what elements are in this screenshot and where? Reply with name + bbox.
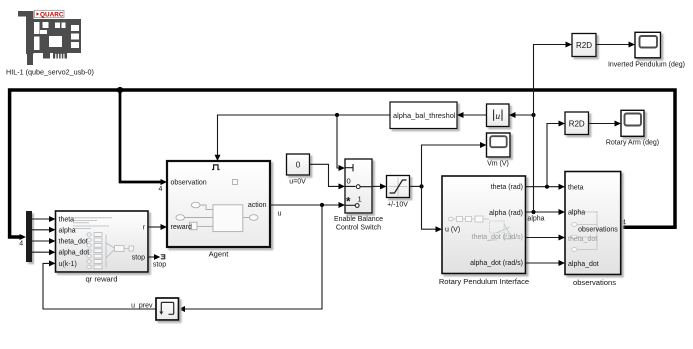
svg-text:action: action <box>248 202 267 209</box>
arrow into Agent reward <box>161 224 168 230</box>
block constant u=0V <box>287 154 310 175</box>
wire constant to switch middle input <box>310 164 340 186</box>
svg-text:4: 4 <box>19 241 23 248</box>
arrow into observations alpha_dot <box>559 260 566 266</box>
svg-text:u(k-1): u(k-1) <box>59 261 77 268</box>
svg-text:QUARC: QUARC <box>40 11 64 18</box>
Rotary Pendulum Interface preview <box>449 216 512 240</box>
svg-text:1: 1 <box>358 195 362 204</box>
arrow into demux <box>20 234 27 240</box>
wire qr reward stop <box>148 256 155 258</box>
svg-text:qr reward: qr reward <box>85 275 117 284</box>
block HIL-1 card icon <box>18 11 81 65</box>
svg-text:R2D: R2D <box>569 119 585 128</box>
wire to Vm scope <box>422 145 482 186</box>
svg-text:+/-10V: +/-10V <box>387 202 408 209</box>
svg-text:alpha_dot (rad/s): alpha_dot (rad/s) <box>470 260 523 267</box>
svg-text:reward: reward <box>171 224 193 231</box>
arrow into inverted pendulum scope <box>629 42 636 48</box>
block abs |u| <box>487 104 510 127</box>
block scope Inverted Pendulum (deg) <box>635 32 661 58</box>
arrow into Agent observation <box>161 179 168 185</box>
arrow into observations alpha <box>559 209 566 215</box>
arrow into alpha_bal_threshold (right side, flipped) <box>457 112 464 118</box>
junction sat out <box>419 184 423 188</box>
arrow into Vm scope <box>480 142 487 148</box>
arrow into |u| (right side, flipped) <box>509 112 516 118</box>
svg-text:alpha: alpha <box>527 216 544 223</box>
svg-text:R2D: R2D <box>576 41 592 50</box>
arrows into qr reward <box>49 216 56 266</box>
svg-text:Rotary Arm (deg): Rotary Arm (deg) <box>606 140 659 147</box>
svg-text:Vm (V): Vm (V) <box>487 161 509 168</box>
block R2D inverted pendulum <box>572 34 596 57</box>
block u_prev memory <box>156 298 179 320</box>
arrow into u (V) <box>436 226 443 232</box>
wire qr reward r to Agent <box>148 226 162 228</box>
svg-text:alpha_bal_threshol: alpha_bal_threshol <box>393 111 456 120</box>
svg-text:*: * <box>346 197 351 209</box>
wire alpha to observations <box>526 211 560 213</box>
svg-text:theta_dot: theta_dot <box>59 239 88 246</box>
junction action wire <box>320 203 324 207</box>
wire trigger branch to switch top input <box>337 115 340 168</box>
svg-text:0: 0 <box>296 160 301 169</box>
svg-text:alpha_dot: alpha_dot <box>59 250 90 257</box>
wire demux out 4 <box>32 251 50 253</box>
wire demux out 1 <box>32 218 50 220</box>
wire demux out 2 <box>32 229 50 231</box>
svg-text:4: 4 <box>159 186 163 193</box>
wire u_prev out to u(k-1) <box>43 263 156 309</box>
demux Demux <box>26 211 32 262</box>
junction alpha at |u| <box>531 113 535 117</box>
svg-text:Control Switch: Control Switch <box>336 225 381 232</box>
svg-text:alpha (rad): alpha (rad) <box>489 210 523 217</box>
svg-text:Agent: Agent <box>209 250 230 259</box>
svg-text:theta_dot (rad/s): theta_dot (rad/s) <box>472 234 523 241</box>
wire thick branch to Agent observation <box>120 90 161 182</box>
block scope Rotary Arm (deg) <box>621 110 644 136</box>
QUARC logo <box>35 10 65 18</box>
svg-text:Rotary Pendulum Interface: Rotary Pendulum Interface <box>439 277 529 286</box>
trigger symbol <box>212 165 220 170</box>
svg-text:0: 0 <box>347 177 351 186</box>
block R2D rotary arm <box>565 112 589 135</box>
wire R2D rotary to scope <box>589 123 616 125</box>
arrow into switch top input <box>339 165 346 171</box>
svg-text:observations: observations <box>573 278 616 287</box>
wire theta to observations <box>526 186 560 188</box>
svg-text:alpha: alpha <box>568 210 585 217</box>
wire trigger net from alpha_bal_threshold <box>218 115 391 155</box>
wire action branch down to u_prev <box>184 205 322 309</box>
wire to u (V) input <box>422 186 437 229</box>
arrow into saturation <box>380 183 387 189</box>
block stop (Stop Simulation, tiny) <box>161 254 165 259</box>
wire demux out 3 <box>32 240 50 242</box>
block qr reward <box>56 211 149 272</box>
svg-text:theta_dot: theta_dot <box>568 236 597 243</box>
svg-text:alpha_dot: alpha_dot <box>568 261 599 268</box>
wire alpha_dot to observations <box>526 262 560 264</box>
arrow into R2D rotary <box>559 121 566 127</box>
svg-text:stop: stop <box>153 262 166 269</box>
wire alpha junction to |u| <box>516 114 534 116</box>
block alpha_bal_threshold <box>390 102 457 129</box>
block Agent <box>167 161 270 247</box>
wire saturation out with junction <box>410 185 422 187</box>
svg-text:4: 4 <box>622 220 626 227</box>
svg-text:u: u <box>495 112 500 122</box>
wire |u| out to alpha_bal_threshold <box>463 114 487 116</box>
svg-text:stop: stop <box>132 255 145 262</box>
wire theta branch to R2D rotary <box>547 124 560 187</box>
arrow into observations theta <box>559 184 566 190</box>
svg-text:u (V): u (V) <box>445 227 460 234</box>
svg-text:observations: observations <box>578 227 618 234</box>
wire theta_dot to observations <box>526 237 560 239</box>
svg-text:alpha: alpha <box>59 227 76 234</box>
block Rotary Pendulum Interface <box>442 176 526 274</box>
wire thick observations feedback loop <box>10 90 675 237</box>
wire alpha branch up to R2D inverted <box>534 45 567 213</box>
junction alpha <box>531 210 535 214</box>
svg-text:theta (rad): theta (rad) <box>491 184 523 191</box>
block observations <box>565 172 621 275</box>
block Enable Balance Control Switch <box>345 159 372 213</box>
junction trigger net <box>335 113 339 117</box>
arrow into observations theta_dot <box>559 235 566 241</box>
svg-text:Enable Balance: Enable Balance <box>334 216 383 223</box>
wire switch out to saturation <box>372 185 381 187</box>
junction on thick wire <box>117 87 123 93</box>
arrow into Agent trigger <box>215 155 221 161</box>
wire R2D to inverted pendulum scope <box>596 44 630 46</box>
qr reward preview <box>73 218 129 267</box>
svg-text:observation: observation <box>171 180 207 187</box>
arrow into switch bottom input <box>339 202 346 208</box>
svg-text:u=0V: u=0V <box>289 179 306 186</box>
wire Agent action to switch bottom input <box>270 204 340 206</box>
svg-text:theta: theta <box>59 217 75 224</box>
arrow into switch middle input <box>339 183 346 189</box>
arrow into rotary arm scope <box>615 121 622 127</box>
arrow into R2D inverted <box>566 42 573 48</box>
Agent preview <box>185 205 250 227</box>
observations preview <box>578 211 602 250</box>
arrow into stop block <box>154 254 160 260</box>
block saturation +/-10V <box>387 176 410 198</box>
svg-text:theta: theta <box>568 185 584 192</box>
svg-text:HIL-1 (qube_servo2_usb-0): HIL-1 (qube_servo2_usb-0) <box>6 68 94 77</box>
svg-text:u: u <box>278 211 282 218</box>
arrow into u_prev (right side, flipped) <box>179 306 186 312</box>
junction theta <box>545 185 549 189</box>
block scope Vm (V) <box>487 133 511 157</box>
svg-text:Inverted Pendulum (deg): Inverted Pendulum (deg) <box>608 62 685 69</box>
